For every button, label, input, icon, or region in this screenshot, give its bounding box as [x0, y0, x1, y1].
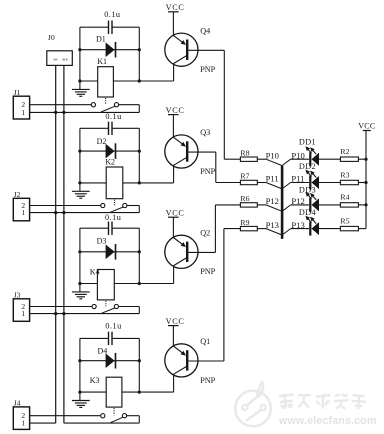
wire cap loop right vertical ch1 [138, 27, 140, 81]
connector J2 pin 1 number [21, 208, 25, 217]
LED DD2 emission arrows [305, 170, 316, 178]
resistor R2 [340, 157, 358, 161]
transistor Q2 collector [174, 258, 187, 284]
svg-text:VCC: VCC [166, 209, 185, 218]
resistor R2 label [340, 147, 349, 156]
relay K2 label [105, 158, 115, 167]
wire relay row right ch1 [113, 80, 173, 82]
wire base Q4 horizontal [188, 49, 224, 51]
transistor Q3 base bar [186, 141, 188, 161]
svg-text:PNP: PNP [200, 65, 215, 74]
ground ch1 [72, 81, 90, 96]
wire base Q1 horizontal [188, 360, 224, 362]
LED DD1 [310, 152, 319, 166]
capacitor C1 label 0.1u [104, 10, 120, 19]
relay K1 label [97, 57, 107, 66]
transistor Q1 collector [174, 367, 187, 393]
wire relay row right ch4 [122, 391, 174, 393]
connector J4 pin 2 number [21, 411, 25, 420]
svg-text:1: 1 [21, 309, 25, 318]
transistor Q3 label [200, 128, 210, 137]
wire VCC stem ch3 [172, 217, 174, 237]
wire base Q2 horizontal [188, 251, 215, 253]
wire VCC stem ch2 [172, 115, 174, 138]
wire switch output to corner ch2 [127, 206, 139, 213]
svg-text:R2: R2 [340, 147, 349, 156]
wire R9 to bus entry [257, 228, 266, 230]
connector J3 label [14, 291, 21, 300]
ground ch3 [72, 284, 90, 299]
connector J4 pin 1 number [21, 419, 25, 428]
svg-text:P12: P12 [266, 196, 279, 206]
wire R3 to VCC rail [358, 182, 366, 184]
wire bus entry to LED DD1 [291, 158, 309, 160]
junction dot relay row right ch1 [138, 79, 141, 82]
wire LED DD3 to R4 [319, 204, 341, 206]
bus entry left row2 [266, 183, 282, 189]
svg-text:J0: J0 [48, 33, 55, 42]
wire cap loop top right ch4 [112, 337, 139, 339]
net label P12 left [266, 196, 279, 206]
connector J4 [13, 407, 29, 430]
switch blade ch1 [101, 106, 115, 112]
svg-text:K3: K3 [90, 376, 100, 385]
svg-text:PNP: PNP [200, 267, 215, 276]
connector J3 [13, 299, 29, 322]
svg-text:VCC: VCC [166, 3, 185, 12]
power VCC ch3 bar [168, 216, 179, 218]
power VCC ch4 label [166, 317, 185, 326]
transistor Q4 base bar [186, 40, 188, 60]
watermark logo [235, 383, 271, 427]
diode D3 [106, 244, 116, 260]
bus entry right row3 [282, 205, 291, 211]
connector J4 label [14, 399, 21, 408]
relay K4 coil [97, 270, 114, 300]
wire J4 pin1 to bus1 corner [30, 422, 56, 424]
bus entry left row4 [266, 229, 282, 235]
svg-text:0.1u: 0.1u [105, 321, 121, 330]
wire switch output to corner ch3 [119, 307, 140, 314]
svg-text:VCC: VCC [358, 121, 375, 130]
resistor R9 label [240, 218, 249, 227]
junction dot diode row right ch2 [138, 150, 141, 153]
power VCC right bar [363, 130, 371, 132]
transistor Q4 emitter with arrow [173, 35, 186, 45]
diode D4 label [98, 347, 108, 356]
connector J1 pin 1 number [21, 108, 25, 117]
svg-text:VCC: VCC [166, 106, 185, 115]
svg-text:R5: R5 [340, 216, 349, 225]
net label P12 right [291, 196, 304, 206]
wire R8 to bus entry [257, 158, 266, 160]
junction dot diode row left ch4 [78, 359, 81, 362]
svg-text:R6: R6 [240, 194, 249, 203]
wire relay row left ch2 [80, 182, 106, 184]
wire bus entry to LED DD3 [291, 204, 309, 206]
wire J1 pin2 rail ch1 [30, 104, 92, 106]
wire J3 pin2 rail ch3 [30, 306, 92, 308]
connector J2 [13, 198, 29, 221]
svg-text:R3: R3 [340, 170, 349, 179]
diode D1 label [96, 35, 106, 44]
LED DD3 label [299, 186, 316, 195]
svg-text:0.1u: 0.1u [104, 10, 120, 19]
wire cap loop top left ch2 [80, 127, 108, 129]
junction dot VCC rail row2 [364, 181, 367, 184]
power VCC ch2 label [166, 106, 185, 115]
junction dot diode row right ch3 [138, 250, 141, 253]
junction dot relay row right ch3 [138, 282, 141, 285]
power VCC ch4 bar [168, 325, 179, 327]
svg-text:R7: R7 [240, 172, 249, 181]
resistor R3 [340, 180, 358, 184]
resistor R3 label [340, 170, 349, 179]
resistor R4 label [340, 193, 349, 202]
wire LED DD4 to R5 [319, 228, 341, 230]
junction dot diode row left ch2 [78, 150, 81, 153]
wire VCC stem ch4 [172, 326, 174, 347]
diode D1 [106, 42, 116, 58]
svg-text:DD4: DD4 [299, 208, 316, 217]
svg-text:K2: K2 [105, 158, 115, 167]
junction dot diode row left ch3 [78, 250, 81, 253]
switch contact right ch4 [122, 414, 126, 418]
junction dot relay row left ch1 [78, 79, 81, 82]
wire cap loop left vertical ch3 [79, 228, 81, 283]
svg-text:PNP: PNP [200, 376, 215, 385]
relay K2 actuation dashed link [114, 200, 116, 206]
transistor Q2 body circle [165, 235, 198, 268]
net label P11 left [266, 174, 279, 184]
svg-text:1: 1 [21, 208, 25, 217]
wire relay row right ch3 [114, 283, 173, 285]
junction dot pin1-bus1 ch3 [54, 312, 57, 315]
LED DD4 [310, 222, 319, 236]
wire cap loop left vertical ch4 [79, 338, 81, 392]
connector J0 [47, 51, 73, 66]
svg-text:Q4: Q4 [200, 26, 210, 35]
junction dot diode row right ch1 [138, 48, 141, 51]
wire R2 to VCC rail [358, 158, 366, 160]
svg-text:P13: P13 [266, 220, 279, 230]
svg-text:Q3: Q3 [200, 128, 210, 137]
wire R4 to VCC rail [358, 204, 366, 206]
wire J1 pin1 rail ch1 [30, 111, 140, 113]
svg-text:Q1: Q1 [200, 337, 210, 346]
svg-text:DD2: DD2 [299, 162, 316, 171]
svg-text:www.elecfans.com: www.elecfans.com [278, 415, 377, 427]
wire J2 pin1 rail ch2 [30, 212, 140, 214]
svg-text:P10: P10 [266, 150, 279, 160]
wire base Q3 to resistor R7 [216, 182, 241, 184]
wire LED DD1 to R2 [319, 158, 341, 160]
switch blade ch4 [110, 417, 123, 423]
svg-text:PNP: PNP [200, 167, 215, 176]
diode D4 [106, 353, 116, 369]
wire LED DD2 to R3 [319, 182, 341, 184]
transistor Q1 PNP label [200, 376, 215, 385]
svg-text:Q2: Q2 [200, 229, 210, 238]
transistor Q4 body circle [165, 33, 198, 66]
resistor R9 [240, 226, 257, 230]
diode D3 label [97, 237, 107, 246]
bus entry left row1 [266, 159, 282, 165]
svg-text:D1: D1 [96, 35, 106, 44]
transistor Q4 collector [174, 56, 187, 81]
connector J0 inner marking [53, 58, 67, 60]
resistor R4 [340, 203, 358, 207]
svg-text:0.1u: 0.1u [105, 112, 121, 121]
wire R6 to bus entry [257, 204, 266, 206]
bus entry right row4 [282, 229, 291, 235]
junction dot pin1-bus2 ch3 [62, 312, 65, 315]
power VCC right label [358, 121, 375, 130]
svg-text:R9: R9 [240, 218, 249, 227]
wire base Q2 to resistor R6 [215, 204, 240, 206]
switch contact right ch1 [114, 103, 118, 107]
wire bus vertical 1 from J0 [55, 65, 57, 423]
transistor Q4 label [200, 26, 210, 35]
wire cap loop top right ch2 [112, 127, 139, 129]
transistor Q2 label [200, 229, 210, 238]
capacitor C2 label 0.1u [105, 112, 121, 121]
wire diode row ch2 [80, 150, 139, 152]
net label P11 right [291, 174, 304, 184]
connector J1 label [14, 88, 21, 97]
connector J1 pin 2 number [21, 100, 25, 109]
LED DD4 label [299, 208, 316, 217]
wire cap loop top right ch1 [112, 26, 139, 28]
transistor Q3 emitter with arrow [173, 137, 186, 147]
bus entry left row3 [266, 205, 282, 211]
junction dot relay row left ch4 [78, 391, 81, 394]
LED DD2 [310, 176, 319, 190]
wire base Q3 vertical [215, 152, 217, 182]
wire J2 pin2 rail ch2 [30, 205, 101, 207]
connector J2 pin 2 number [21, 201, 25, 210]
svg-text:R4: R4 [340, 193, 349, 202]
relay K4 actuation dashed link [105, 301, 107, 306]
junction dot relay row right ch2 [138, 181, 141, 184]
wire cap loop left vertical ch2 [79, 128, 81, 183]
relay K1 coil [98, 67, 114, 97]
junction dot VCC rail row1 [364, 158, 367, 161]
svg-text:VCC: VCC [166, 317, 185, 326]
connector J1 [13, 96, 29, 119]
capacitor C4 label 0.1u [105, 321, 121, 330]
wire VCC right rail vertical [365, 131, 367, 229]
diode D2 label [97, 137, 107, 146]
wire bus2 corner to switch rail ch4 [64, 422, 139, 424]
svg-text:R8: R8 [240, 148, 249, 157]
transistor Q1 base bar [186, 350, 188, 370]
switch blade ch2 [110, 207, 123, 212]
capacitor C2 [109, 122, 113, 135]
wire diode row ch3 [80, 251, 139, 253]
transistor Q2 base bar [186, 242, 188, 262]
net label P13 right [291, 220, 304, 230]
wire bus entry to LED DD4 [291, 228, 309, 230]
transistor Q3 collector [174, 158, 187, 183]
switch blade ch3 [102, 308, 116, 313]
wire base Q4 to resistor R8 [224, 158, 240, 160]
resistor R8 label [240, 148, 249, 157]
transistor Q3 body circle [165, 135, 198, 168]
wire J4 pin2 rail ch4 [30, 415, 101, 417]
svg-text:D2: D2 [97, 137, 107, 146]
LED DD1 label [299, 138, 316, 147]
relay K3 actuation dashed link [113, 408, 115, 415]
LED DD3 emission arrows [305, 192, 316, 200]
wire diode row ch4 [80, 360, 139, 362]
switch contact right ch3 [114, 304, 118, 308]
ground ch2 [72, 183, 90, 198]
connector J3 pin 2 number [21, 302, 25, 311]
wire switch output to corner ch4 [127, 416, 140, 423]
LED DD2 label [299, 162, 316, 171]
relay K2 coil [106, 167, 123, 199]
wire base Q3 horizontal [188, 151, 215, 153]
junction dot pin1-bus1 ch2 [54, 211, 57, 214]
transistor Q1 body circle [165, 344, 198, 377]
svg-text:D3: D3 [97, 237, 107, 246]
wire switch output to corner ch1 [119, 105, 140, 113]
junction dot pin1-bus2 ch1 [62, 111, 65, 114]
ground ch4 [72, 392, 90, 407]
svg-text:1: 1 [21, 419, 25, 428]
net label P13 left [266, 220, 279, 230]
junction dot diode row right ch4 [138, 359, 141, 362]
switch contact left ch4 [101, 414, 105, 418]
relay K3 label [90, 376, 100, 385]
wire J3 pin1 rail ch3 [30, 313, 140, 315]
LED DD4 emission arrows [305, 216, 316, 224]
resistor R6 [240, 203, 257, 207]
junction dot diode row left ch1 [78, 48, 81, 51]
relay K3 coil [106, 377, 122, 407]
watermark text www.elecfans.com [278, 415, 377, 427]
LED DD3 [310, 198, 319, 212]
capacitor C3 [109, 222, 113, 235]
connector J3 pin 1 number [21, 309, 25, 318]
net label P10 right [291, 150, 304, 160]
capacitor C3 label 0.1u [105, 213, 121, 222]
wire bus entry to LED DD2 [291, 182, 309, 184]
junction dot relay row left ch3 [78, 282, 81, 285]
transistor Q1 label [200, 337, 210, 346]
wire base Q2 vertical [214, 205, 216, 253]
wire cap loop right vertical ch4 [138, 338, 140, 392]
transistor Q3 PNP label [200, 167, 215, 176]
resistor R5 [340, 226, 358, 230]
connector J2 label [14, 190, 21, 199]
switch contact left ch1 [91, 103, 95, 107]
svg-text:1: 1 [21, 108, 25, 117]
junction dot relay row right ch4 [138, 391, 141, 394]
resistor R6 label [240, 194, 249, 203]
relay K4 label [90, 268, 100, 277]
resistor R8 [240, 157, 257, 161]
power VCC ch1 label [166, 3, 185, 12]
wire relay row left ch1 [80, 80, 98, 82]
resistor R7 label [240, 172, 249, 181]
transistor Q1 emitter with arrow [173, 346, 186, 356]
junction dot relay row left ch2 [78, 181, 81, 184]
resistor R5 label [340, 216, 349, 225]
svg-text:K1: K1 [97, 57, 107, 66]
svg-text:DD1: DD1 [299, 138, 316, 147]
svg-text:P11: P11 [266, 174, 279, 184]
wire base Q4 vertical [223, 50, 225, 159]
wire cap loop top left ch1 [80, 26, 108, 28]
wire R5 to VCC rail [358, 228, 366, 230]
wire relay row left ch3 [80, 283, 98, 285]
wire cap loop right vertical ch3 [138, 228, 140, 283]
wire VCC stem ch1 [172, 12, 174, 36]
connector J0 label [48, 33, 55, 42]
wire cap loop right vertical ch2 [138, 128, 140, 183]
net label P10 left [266, 150, 279, 160]
junction dot pin1-bus2 ch2 [62, 211, 65, 214]
wire cap loop top left ch4 [80, 337, 108, 339]
junction dot VCC rail row3 [364, 203, 367, 206]
wire cap loop top left ch3 [80, 227, 108, 229]
transistor Q4 PNP label [200, 65, 215, 74]
wire base Q1 vertical [223, 229, 225, 361]
wire relay row left ch4 [80, 391, 106, 393]
bus entry right row2 [282, 183, 291, 189]
watermark text dianzifashaoyou [279, 393, 367, 410]
bus entry right row1 [282, 159, 291, 165]
wire diode row ch1 [80, 49, 139, 51]
junction dot pin1-bus1 ch1 [54, 111, 57, 114]
wire R7 to bus entry [257, 182, 266, 184]
power VCC ch2 bar [168, 114, 179, 116]
power VCC ch3 label [166, 209, 185, 218]
wire relay row right ch2 [123, 182, 174, 184]
wire bus vertical 2 from J0 [63, 65, 65, 423]
resistor R7 [240, 180, 257, 184]
switch contact left ch2 [101, 203, 105, 207]
capacitor C1 [109, 21, 113, 34]
bus line P10-P13 [281, 166, 284, 239]
wire base Q1 to resistor R9 [224, 228, 241, 230]
switch contact right ch2 [123, 203, 127, 207]
LED DD1 emission arrows [305, 146, 316, 154]
diode D2 [106, 143, 116, 159]
capacitor C4 [109, 332, 113, 345]
svg-text:0.1u: 0.1u [105, 213, 121, 222]
transistor Q2 emitter with arrow [173, 238, 186, 248]
wire cap loop left vertical ch1 [79, 27, 81, 81]
transistor Q2 PNP label [200, 267, 215, 276]
switch contact left ch3 [92, 304, 96, 308]
relay K1 actuation dashed link [105, 98, 107, 104]
wire cap loop top right ch3 [112, 227, 139, 229]
power VCC ch1 bar [168, 11, 179, 13]
